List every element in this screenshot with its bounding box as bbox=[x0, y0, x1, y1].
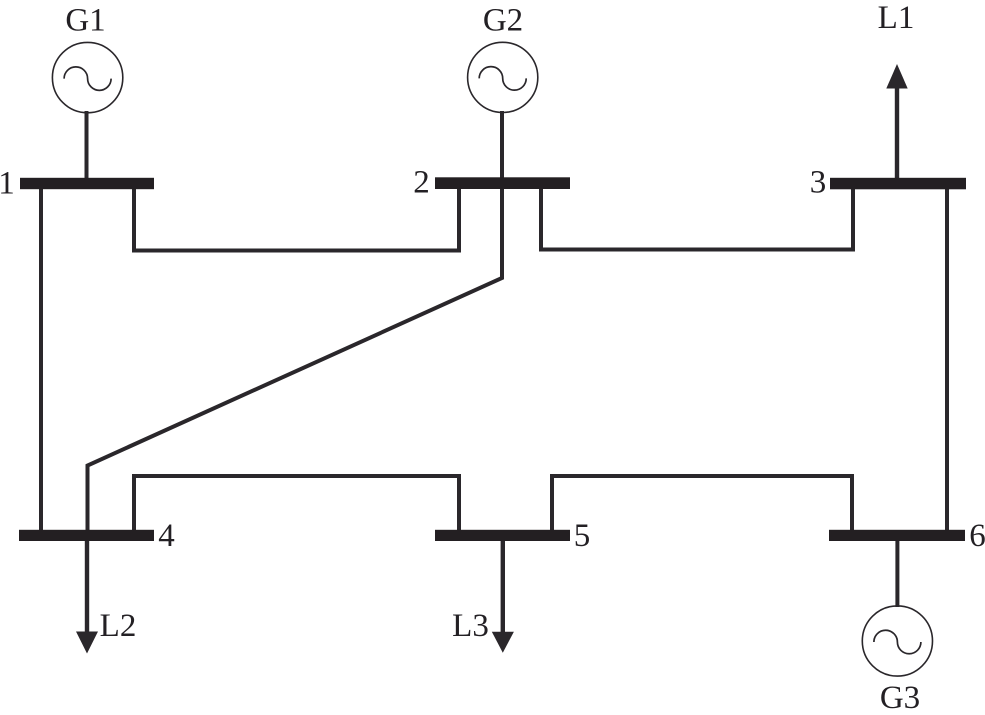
wire 2-3 bbox=[541, 187, 853, 250]
bus 1 bbox=[20, 178, 154, 189]
wire G3 stem bbox=[895, 535, 899, 607]
svg-text:4: 4 bbox=[158, 518, 175, 554]
bus 2 bbox=[435, 177, 570, 189]
wire 1-2 bbox=[134, 187, 459, 251]
svg-text:L3: L3 bbox=[452, 608, 489, 644]
load L2 arrow bbox=[76, 535, 98, 654]
svg-text:6: 6 bbox=[969, 518, 985, 554]
svg-text:3: 3 bbox=[810, 165, 827, 201]
bus 6 bbox=[829, 530, 965, 541]
load L1 arrow bbox=[886, 64, 907, 185]
svg-text:L2: L2 bbox=[100, 608, 137, 644]
bus 3 bbox=[830, 178, 966, 190]
svg-text:G2: G2 bbox=[483, 2, 523, 38]
generator G2 bbox=[468, 42, 538, 112]
svg-text:G3: G3 bbox=[880, 680, 920, 715]
load L3 arrow bbox=[492, 535, 514, 653]
svg-text:1: 1 bbox=[0, 165, 15, 201]
svg-text:2: 2 bbox=[413, 165, 430, 201]
svg-text:L1: L1 bbox=[878, 0, 915, 36]
svg-text:5: 5 bbox=[574, 518, 591, 554]
wire 5-6 bbox=[552, 476, 852, 532]
wire 3-6 bbox=[945, 185, 949, 534]
generator G1 bbox=[52, 42, 122, 112]
wire 1-4 bbox=[39, 185, 43, 534]
wire 4-5 bbox=[134, 476, 459, 532]
wire G2 stem and line 2-4 diagonal bbox=[88, 111, 503, 534]
svg-text:G1: G1 bbox=[65, 2, 105, 38]
wire G1 stem bbox=[85, 111, 89, 185]
generator G3 bbox=[862, 606, 932, 676]
bus 5 bbox=[435, 530, 570, 541]
bus 4 bbox=[19, 530, 154, 541]
